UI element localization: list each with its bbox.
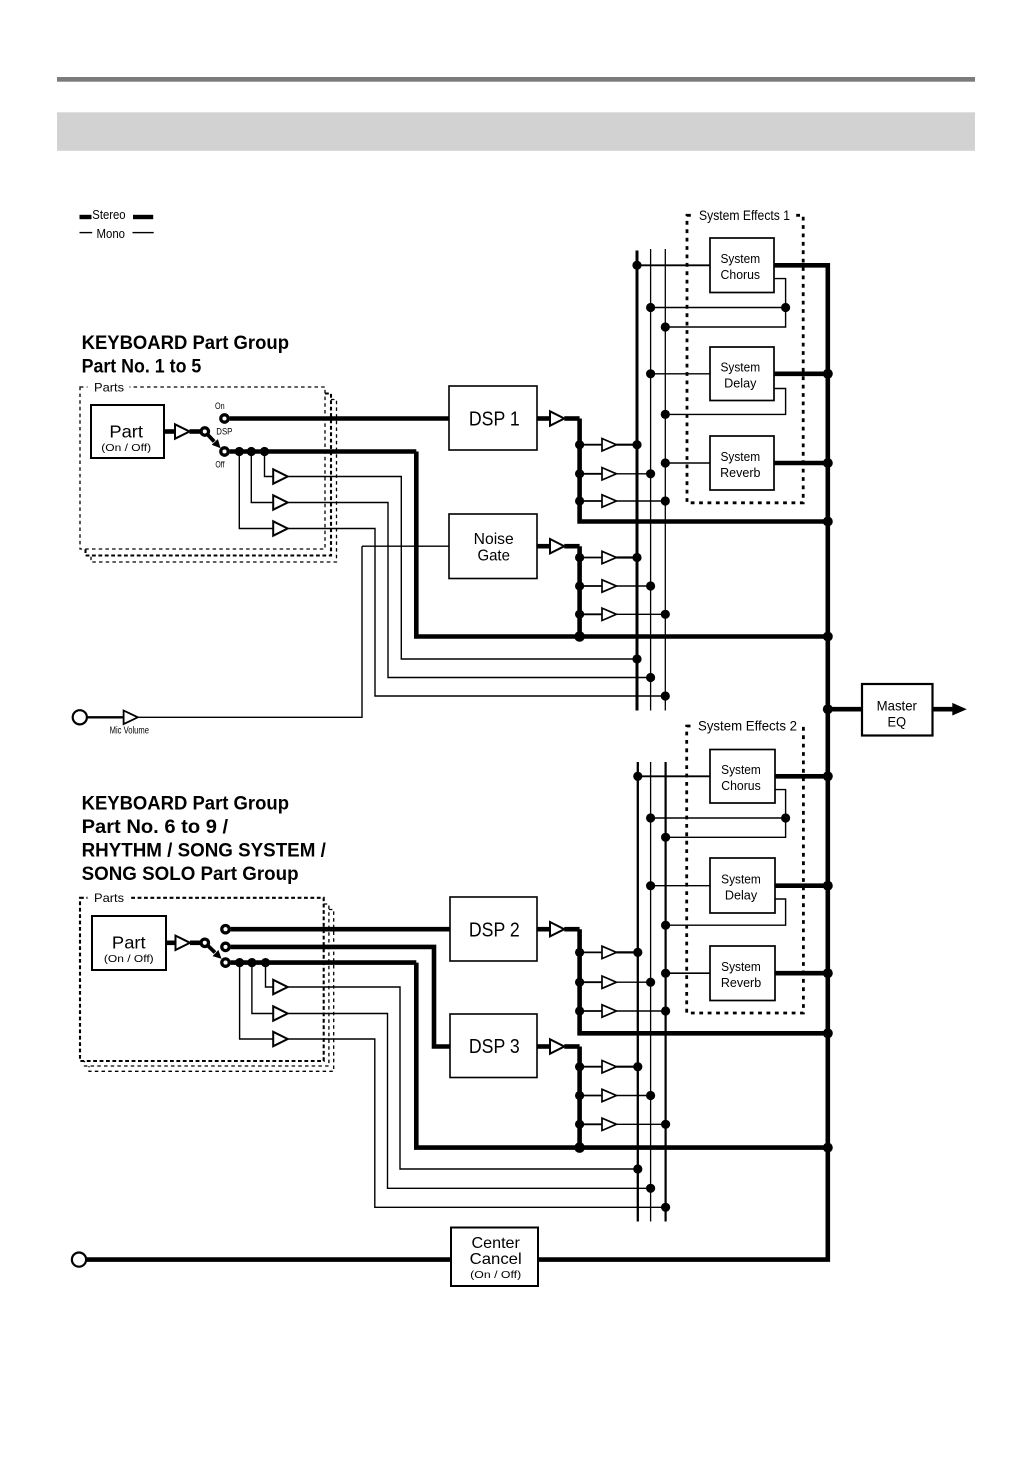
wire Master EQ output [933,707,955,712]
wire Off line to buffer B3 [239,452,273,529]
wire buffer T1 to v1 [616,444,637,446]
junction Off line tap 2 (upper) [247,447,256,456]
junction v1' x T7 [633,948,642,957]
label DSP 3 [469,1036,520,1058]
svg-text:(On / Off): (On / Off) [101,443,151,454]
svg-text:DSP: DSP [216,427,232,437]
legend label Mono [97,227,126,241]
parts group 2 dashed box 3 (back) [89,910,334,1072]
buffer B3 part group 1 [273,521,288,535]
wire DSP 1 drop to buffer T3 [580,500,602,502]
svg-text:System: System [720,252,760,266]
wire NG drop to buffer T4 [580,557,602,559]
label Gate [477,548,510,565]
block DSP 1 [449,386,537,450]
wire DSP 1 output to buffer A2 [537,416,550,421]
switch SW2 contact DSP [222,943,229,950]
block DSP 2 [450,897,537,961]
wire delay 1 return to v3 [665,389,785,415]
buffer T8 DSP 2 send [602,976,616,988]
title SONG SOLO Part Group [82,864,299,885]
label Reverb 1 [720,466,760,480]
svg-text:Reverb: Reverb [720,466,760,480]
wire buffer A2 to DSP 1 drop [564,416,579,421]
junction v3 x T6 [661,610,670,619]
block System Reverb 2 [710,946,775,1001]
junction v2 delay tap [646,369,655,378]
svg-text:Off: Off [215,459,224,469]
parts group 2 dashed box 1 (front) [80,892,324,1062]
wire buffer T2 to v2 [616,473,650,475]
wire v3 to System Reverb 1 input [665,462,710,464]
label Delay 1 [724,377,757,391]
junction v1' x T10 [633,1062,642,1071]
wire System Chorus 1 output to mix bus / main stereo bus / bottom line to output jack [86,265,828,1259]
buffer B5 part group 2 [273,1006,288,1020]
block Center Cancel [451,1228,538,1287]
dashed group System Effects 2 [687,719,804,1013]
wire buffer T11 to v2' [616,1095,650,1097]
label Noise [474,531,514,548]
junction v3 x T3 [661,496,670,505]
wire mic buffer to Noise Gate [138,546,362,717]
wire System Reverb 2 output to bus [775,971,828,976]
buffer A2 DSP 1 output [550,411,564,425]
junction NG drop tap 2 [575,581,584,590]
junction Off line tap 3 (upper) [235,447,244,456]
wire Noise Gate stereo drop to bypass line [577,546,582,636]
wire v2' to System Delay 2 input [651,885,710,887]
buffer T10 DSP 3 send [602,1061,616,1073]
wire Noise Gate output to buffer A3 [537,544,550,549]
label Part (lower) [112,933,146,953]
label Chorus 1 [721,268,761,282]
wire DSP 2 output to buffer A7 [537,927,550,932]
buffer B4 part group 2 [273,980,288,994]
junction v1 x T4 [632,553,641,562]
junction DSP 3 drop tap 3 [575,1120,584,1129]
wire buffer T10 to v1' [616,1066,637,1068]
wire buffer T4 to v1 [616,556,637,558]
svg-text:RHYTHM / SONG SYSTEM /: RHYTHM / SONG SYSTEM / [82,841,327,862]
label System Effects 1 [699,208,790,223]
buffer T2 DSP 1 send [602,468,616,480]
wire DSP 2 drop to buffer T8 [580,981,602,983]
svg-text:Mono: Mono [97,227,126,241]
wire buffer T5 to v2 [616,585,650,587]
mono bus v3 (upper) [664,249,666,711]
block Master EQ [862,684,933,736]
junction DSP 1 drop tap 2 [575,469,584,478]
wire DSP 3 stereo drop to bypass line [577,1047,582,1148]
wire Off bypass down and right to mix bus (upper) [416,452,828,637]
junction v2 x T5 [646,581,655,590]
buffer A6 Part2 output [176,936,191,950]
wire Off line to buffer B1 [265,452,274,477]
buffer T5 NG send [602,580,616,592]
junction Off line tap 2 (lower) [247,958,256,967]
wire DSP 2 drop to buffer T7 [580,951,602,953]
wire DSP 3 drop to buffer T12 [580,1123,602,1125]
mono bus v1 (upper) [636,251,639,711]
svg-text:Stereo: Stereo [92,208,125,222]
svg-text:Part No. 6 to 9 /: Part No. 6 to 9 / [82,817,229,838]
wire buffer T3 to v3 [616,500,665,502]
label System Effects 2 [698,719,797,734]
wire buffer B6 to mono bus v3' [288,1039,666,1207]
legend stereo thick line right [133,215,153,219]
junction DSP 2 drop tap 3 [575,1006,584,1015]
buffer A8 DSP 3 output [550,1039,564,1053]
wire DSP 2 drop to buffer T9 [580,1010,602,1012]
svg-text:KEYBOARD Part Group: KEYBOARD Part Group [82,794,289,815]
legend mono thin line left [80,232,93,233]
svg-text:On: On [215,401,225,411]
wire v2 to System Delay 1 input [651,373,710,375]
junction v3 delay return [661,410,670,419]
wire Off line to buffer B5 [252,963,273,1014]
junction v3 reverb tap [661,458,670,467]
svg-text:Part No. 1 to 5: Part No. 1 to 5 [82,357,202,378]
junction chorus 2 return split [781,813,790,822]
junction chorus 1 return split [781,303,790,312]
label System (chorus 2) [721,763,761,777]
label System (chorus 1) [720,252,760,266]
junction v3' x T12 [661,1120,670,1129]
svg-text:Mic Volume: Mic Volume [110,725,150,736]
buffer Mic Volume [124,711,138,725]
buffer T4 NG send [602,551,616,563]
wire chorus 1 return to v2 [651,307,786,309]
wire switch SW1 Off line [230,449,417,454]
svg-text:Part: Part [112,933,146,953]
junction v3' delay return [661,921,670,930]
switch SW2 lever arrow [208,946,221,959]
wire Off line to buffer B2 [251,452,273,503]
wire mic to Noise Gate input [362,545,449,547]
svg-text:Cancel: Cancel [470,1251,522,1268]
wire Off bypass down and right to mix bus (lower) [416,963,828,1148]
label Part (upper) [109,421,143,441]
junction DSP 2 drop tap 2 [575,978,584,987]
wire buffer B4 to mono bus v1' [288,987,638,1169]
junction v3' x T9 [661,1006,670,1015]
junction v1' x B4 return [633,1164,642,1173]
wire buffer A8 to DSP 3 drop [564,1044,579,1049]
junction v3 x B3 return [661,691,670,700]
wire DSP 3 drop to buffer T10 [580,1066,602,1068]
label DSP 1 [469,409,520,431]
junction bus x reverb 1 [823,458,833,468]
wire buffer A3 to Noise Gate drop [564,544,579,549]
label (On / Off) (lower) [104,954,154,965]
wire DSP 3 drop to buffer T11 [580,1095,602,1097]
svg-text:Part: Part [109,421,143,441]
label Parts (upper) [94,381,124,395]
junction bus x chorus 2 [823,771,833,781]
wire buffer T8 to v2' [616,981,650,983]
title KEYBOARD Part Group (upper) [82,333,289,354]
wire buffer B3 to mono bus v3 [288,529,666,697]
header banner [57,112,975,151]
label Master [877,699,918,714]
label Center [472,1235,521,1252]
wire bus to Master EQ [828,707,862,712]
junction bus x delay 2 [823,881,833,891]
svg-text:Master: Master [877,699,918,714]
switch SW2 pivot contact [201,939,208,946]
title RHYTHM / SONG SYSTEM / [82,841,327,862]
junction NG drop on bypass line [574,631,585,642]
label Off [215,459,224,469]
wire Part1 output to buffer [164,429,175,434]
svg-text:System Effects 2: System Effects 2 [698,719,797,734]
label EQ [888,715,907,730]
junction v2 x B2 return [646,673,655,682]
wire DSP 1 drop to buffer T2 [580,473,602,475]
svg-text:Parts: Parts [94,891,124,905]
label (On / Off) (upper) [101,443,151,454]
junction bus x reverb 2 [823,968,833,978]
title Part No. 1 to 5 [82,357,202,378]
label (On / Off) center cancel [470,1270,521,1281]
mono bus v2' (lower) [650,762,652,1222]
junction bus x delay 1 [823,369,833,379]
junction v1 x T1 [632,440,641,449]
junction bus x bypass line (lower) [823,1143,833,1153]
wire buffer A6 to switch pivot [190,940,201,945]
wire NG drop to buffer T5 [580,585,602,587]
legend mono thin line right [133,232,154,233]
legend stereo thick line left [80,215,92,219]
block System Delay 1 [710,347,774,401]
junction Off line tap 1 (lower) [261,958,270,967]
switch SW1 contact Off [221,448,228,455]
buffer A3 Noise Gate output [550,539,564,553]
wire buffer T6 to v3 [616,613,665,615]
label System (reverb 1) [720,450,760,464]
junction Off line tap 1 (upper) [260,447,269,456]
label DSP [216,427,232,437]
page top rule [57,77,975,82]
junction v3 chorus return [661,322,670,331]
wire Off line to buffer B4 [266,963,274,987]
buffer B2 part group 1 [273,495,288,509]
wire chorus 2 return to v3' [666,818,786,837]
block System Delay 2 [710,858,775,913]
legend label Stereo [92,208,125,222]
junction v2 chorus return [646,303,655,312]
buffer T9 DSP 2 send [602,1005,616,1017]
block Noise Gate [449,514,537,579]
block System Reverb 1 [710,436,774,490]
junction DSP 1 drop tap 3 [575,496,584,505]
label System (delay 1) [720,361,760,375]
wire v3' to System Reverb 2 input [666,972,710,974]
wire buffer B5 to mono bus v2' [288,1014,651,1189]
dashed group System Effects 1 [687,209,803,503]
junction v3' chorus return [661,833,670,842]
parts group 1 dashed box 3 (back) [91,400,337,563]
junction v2 x T2 [646,469,655,478]
wire switch SW2 On line to DSP 2 [231,927,450,932]
junction v2' x B5 return [646,1184,655,1193]
junction DSP 3 drop tap 1 [575,1062,584,1071]
junction NG drop tap 1 [575,553,584,562]
wire chorus 1 return to v3 [665,308,785,328]
wire System Reverb 1 output to bus [774,461,828,466]
buffer T11 DSP 3 send [602,1089,616,1101]
wire switch SW2 Off line [231,960,417,965]
label DSP 2 [469,920,520,942]
svg-text:KEYBOARD Part Group: KEYBOARD Part Group [82,333,289,354]
svg-text:Noise: Noise [474,531,514,548]
junction DSP 2 drop tap 1 [575,948,584,957]
buffer A1 Part1 output [175,424,190,438]
wire DSP 1 drop to buffer T1 [580,444,602,446]
junction DSP 3 drop tap 2 [575,1091,584,1100]
junction v3' reverb tap [661,969,670,978]
wire System Delay 1 output to bus [774,371,828,376]
label Cancel [470,1251,522,1268]
svg-text:Reverb: Reverb [721,976,761,990]
block Part (lower) [92,916,166,970]
junction v2' chorus return [646,813,655,822]
label Delay 2 [725,888,758,902]
buffer T3 DSP 1 send [602,495,616,507]
svg-text:System: System [720,450,760,464]
wire buffer A1 to switch pivot [190,429,202,434]
wire DSP 3 output to buffer A8 [537,1044,550,1049]
svg-text:DSP 2: DSP 2 [469,920,520,942]
svg-text:Delay: Delay [725,888,758,902]
buffer A7 DSP 2 output [550,922,564,936]
wire System Delay 2 output to bus [775,883,828,888]
junction bus x Master EQ feed [823,704,833,714]
label Mic Volume [110,725,150,736]
buffer B1 part group 1 [273,469,288,483]
wire NG drop to buffer T6 [580,613,602,615]
junction DSP 3 drop on bypass line [574,1142,585,1153]
junction v3' x B6 return [661,1203,670,1212]
label System (delay 2) [721,872,761,886]
label Chorus 2 [721,779,761,793]
wire buffer T7 to v1' [616,951,637,953]
junction Off line tap 3 (lower) [235,958,244,967]
junction DSP 1 drop tap 1 [575,440,584,449]
wire delay 2 return to v3' [666,899,786,925]
wire buffer T12 to v3' [616,1123,665,1125]
wire buffer A7 to DSP 2 drop [564,927,579,932]
svg-text:System: System [721,763,761,777]
parts group 1 dashed box 2 (middle) [86,394,332,556]
svg-text:Parts: Parts [94,381,124,395]
junction bus x bypass line (upper) [823,632,833,642]
svg-text:SONG SOLO Part Group: SONG SOLO Part Group [82,864,299,885]
svg-text:System: System [721,872,761,886]
title KEYBOARD Part Group (lower) [82,794,289,815]
mono bus v2 (upper) [650,249,652,711]
svg-text:System: System [721,960,761,974]
label Reverb 2 [721,976,761,990]
buffer T1 DSP 1 send [602,439,616,451]
wire mic jack to mic buffer [87,716,124,718]
switch SW1 lever arrow [208,435,221,449]
block Part (upper) [91,405,164,458]
wire switch SW1 On line to DSP 1 [230,416,449,421]
buffer T12 DSP 3 send [602,1118,616,1130]
svg-text:Delay: Delay [724,377,757,391]
buffer B6 part group 2 [273,1032,288,1046]
label Parts (lower) [94,891,124,905]
svg-text:DSP 1: DSP 1 [469,409,520,431]
junction v2' x T8 [646,978,655,987]
junction v2' x T11 [646,1091,655,1100]
svg-text:System: System [720,361,760,375]
input jack Mic [73,710,87,724]
svg-text:Chorus: Chorus [721,779,761,793]
title Part No. 6 to 9 / [82,817,229,838]
switch SW2 contact On [222,926,229,933]
wire chorus 2 return to v2' [651,817,786,819]
svg-text:Chorus: Chorus [721,268,761,282]
svg-text:Center: Center [472,1235,521,1252]
block System Chorus 2 [710,750,775,804]
wire System Chorus 2 return down [775,790,786,818]
label On [215,401,225,411]
wire v1 to System Chorus 1 input [637,264,710,266]
svg-text:System Effects 1: System Effects 1 [699,208,790,223]
output jack (bottom left) [72,1253,86,1267]
wire System Chorus 1 return down [774,279,786,308]
junction v1 x B1 return [632,654,641,663]
switch SW1 pivot contact [201,428,208,435]
junction bus x DSP 1 line [823,517,833,527]
svg-text:DSP 3: DSP 3 [469,1036,520,1058]
wire buffer B1 to mono bus v1 [288,477,637,660]
arrow output (line out) [952,703,967,716]
mono bus v3' (lower) [664,762,666,1222]
svg-text:(On / Off): (On / Off) [104,954,154,965]
parts group 2 dashed box 2 (middle) [85,904,329,1066]
wire buffer T9 to v3' [616,1010,665,1012]
svg-text:EQ: EQ [888,715,907,730]
buffer T6 NG send [602,608,616,620]
wire Part2 output to buffer [166,940,176,945]
svg-text:Gate: Gate [477,548,510,565]
wire DSP 1 stereo drop to mix bus [580,419,828,522]
wire buffer B2 to mono bus v2 [288,503,651,678]
wire Off line to buffer B6 [240,963,274,1039]
block DSP 3 [450,1014,537,1078]
label System (reverb 2) [721,960,761,974]
mono bus v1' (lower) [637,762,639,1222]
junction v1 chorus tap [632,261,641,270]
junction NG drop tap 3 [575,610,584,619]
wire switch SW2 DSP line to DSP 3 [231,947,450,1047]
buffer T7 DSP 2 send [602,946,616,958]
junction bus x DSP 2 line [823,1028,833,1038]
junction v1' chorus tap [633,772,642,781]
block System Chorus 1 [710,238,774,293]
wire v1' to System Chorus 2 input [638,775,710,777]
parts group 1 dashed box 1 (front) [80,381,325,550]
svg-text:(On / Off): (On / Off) [470,1270,521,1281]
wire System Chorus 2 output to bus [775,774,828,779]
wire DSP 2 stereo drop to mix bus [580,929,828,1033]
switch SW1 contact On [221,415,228,422]
switch SW2 contact Off [222,959,229,966]
